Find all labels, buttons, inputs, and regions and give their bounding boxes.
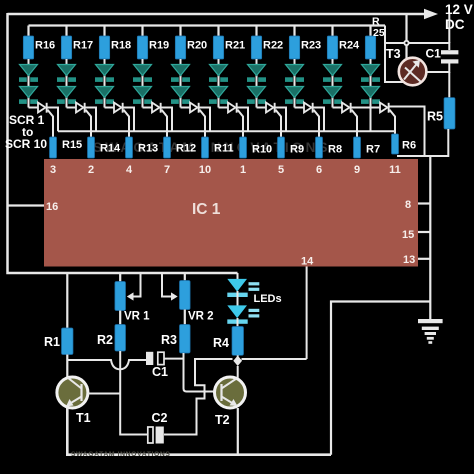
resistor R25 <box>365 36 375 59</box>
watermark bottom <box>71 451 170 458</box>
resistor R3 <box>180 325 191 354</box>
resistor R9 <box>278 137 285 158</box>
LED column 1 D2 <box>19 87 38 104</box>
label IC 1 <box>192 201 221 218</box>
wire SCR1 cathode <box>48 108 59 132</box>
svg-text:15: 15 <box>402 229 414 241</box>
wire SCR10 anode <box>371 107 381 109</box>
wire base loop left <box>385 26 404 44</box>
label R12 <box>176 143 196 155</box>
light rays D11 <box>249 282 260 291</box>
light rays D12 <box>249 309 260 318</box>
svg-text:R12: R12 <box>176 143 196 155</box>
svg-text:5: 5 <box>278 164 284 176</box>
wire ground rail <box>429 156 431 321</box>
transistor T3 <box>399 58 427 86</box>
wire dot to C1 <box>409 14 449 50</box>
svg-text:SCR 10: SCR 10 <box>5 137 47 151</box>
wire SCR2 gate <box>86 110 92 138</box>
svg-text:R16: R16 <box>35 40 55 52</box>
LED column 10 D2 <box>361 87 380 104</box>
wire SCR8 gate <box>314 110 320 138</box>
LED column 10 D1 <box>361 65 380 82</box>
wire SCR9 cathode <box>352 108 371 132</box>
resistor R17 <box>61 36 71 59</box>
svg-text:R23: R23 <box>301 40 321 52</box>
wire SCR3 cathode <box>124 108 135 132</box>
svg-text:1: 1 <box>240 164 246 176</box>
label R11 <box>214 143 234 155</box>
svg-text:C1: C1 <box>426 47 442 61</box>
wire top LED bus <box>29 24 386 26</box>
label T3 <box>386 47 401 61</box>
svg-text:7: 7 <box>164 164 170 176</box>
wire SCR1 gate <box>48 110 54 138</box>
capacitor C1 bottom <box>146 352 164 365</box>
wire SCR4 gate <box>162 110 168 138</box>
wire SCR8 anode <box>295 107 305 109</box>
resistor R20 <box>175 36 185 59</box>
resistor R14 <box>88 137 95 158</box>
wire node to R5 <box>448 72 450 98</box>
svg-text:10: 10 <box>199 164 211 176</box>
svg-text:13: 13 <box>403 254 415 266</box>
svg-text:R21: R21 <box>225 40 245 52</box>
pin 15 <box>402 229 414 241</box>
wire SCR5 gate <box>200 110 206 138</box>
label R1 <box>44 335 60 349</box>
label R15 <box>62 139 82 151</box>
resistor R24 <box>327 36 337 59</box>
label LEDs <box>254 293 282 305</box>
wire column 2 feed <box>65 26 67 38</box>
wire SCR7 gate <box>276 110 282 138</box>
pin 10 <box>199 164 211 176</box>
thyristor SCR5 <box>190 103 200 113</box>
wire VR2 feed <box>184 273 186 281</box>
12V arrowhead <box>424 9 438 20</box>
preset VR1 <box>115 282 126 311</box>
label R20 <box>187 40 207 52</box>
label R19 <box>149 40 169 52</box>
wire R5 bottom <box>397 129 448 156</box>
resistor R10 <box>240 137 247 158</box>
label R2 <box>97 333 113 347</box>
resistor R6 <box>392 134 399 154</box>
label T1 <box>76 411 91 425</box>
wire T1 collector to C1 <box>67 360 146 369</box>
svg-text:2: 2 <box>88 164 94 176</box>
wire C1 to R3 lead <box>164 358 183 360</box>
label R17 <box>73 40 93 52</box>
label R14 <box>100 143 121 155</box>
resistor R19 <box>137 36 147 59</box>
svg-text:8: 8 <box>405 199 411 211</box>
svg-text:R24: R24 <box>339 40 360 52</box>
pin 13 <box>403 254 415 266</box>
svg-text:T3: T3 <box>386 47 401 61</box>
wire diamond to pin14 <box>242 358 307 360</box>
wire column 8 feed <box>293 26 295 38</box>
LED column 6 D1 <box>209 65 228 82</box>
svg-text:LEDs: LEDs <box>254 293 282 305</box>
wire SCR8 cathode <box>314 108 325 132</box>
resistor R23 <box>289 36 299 59</box>
svg-text:R1: R1 <box>44 335 60 349</box>
capacitor C1 top plates <box>441 50 458 63</box>
label R4 <box>213 336 229 350</box>
svg-text:R13: R13 <box>138 143 158 155</box>
pin 2 <box>88 164 94 176</box>
wire SCR2 cathode <box>86 108 97 132</box>
wire diamond to T2 <box>237 366 239 378</box>
wire 12V top rail <box>8 13 426 15</box>
wire left +12V rail <box>8 13 238 273</box>
svg-text:R17: R17 <box>73 40 93 52</box>
thyristor SCR4 <box>152 103 162 113</box>
svg-text:R5: R5 <box>427 110 443 124</box>
svg-text:R14: R14 <box>100 143 121 155</box>
resistor R13 <box>126 137 133 158</box>
resistor R7 <box>354 137 361 158</box>
wire pin14 drop <box>306 267 308 360</box>
svg-text:R11: R11 <box>214 143 234 155</box>
resistor R11 <box>202 137 209 158</box>
wire SCR4 cathode <box>162 108 173 132</box>
wire pin 13 stub <box>418 258 430 260</box>
wire SCR7 anode <box>257 107 267 109</box>
wire column 7 feed <box>255 26 257 38</box>
LED column 2 D2 <box>57 87 76 104</box>
wire SCR1 anode <box>29 107 39 109</box>
wire bottom return <box>331 302 430 455</box>
label R3 <box>161 333 177 347</box>
wire C2 right riser <box>164 359 233 435</box>
label R24 <box>339 40 360 52</box>
LED column 8 D1 <box>285 65 304 82</box>
LED column 5 D1 <box>171 65 190 82</box>
resistor R21 <box>213 36 223 59</box>
wire base loop down <box>385 43 404 82</box>
wire SCR6 gate <box>238 110 244 138</box>
wire SCR3 anode <box>105 107 115 109</box>
watermark centre <box>93 140 331 155</box>
svg-text:R9: R9 <box>290 144 304 156</box>
wire LED link <box>237 291 239 306</box>
label R6 <box>402 140 416 152</box>
label C1 top <box>426 47 442 61</box>
label R22 <box>263 40 283 52</box>
wire SCR6 cathode <box>238 108 249 132</box>
wire R4 to diamond <box>237 355 239 356</box>
label T2 <box>215 413 230 427</box>
label R23 <box>301 40 321 52</box>
label R8 <box>328 144 342 156</box>
wire LED string column 4 <box>142 59 144 108</box>
wire LED-R4 link <box>237 318 239 327</box>
pin 7 <box>164 164 170 176</box>
preset VR2 <box>180 281 191 310</box>
wire VR2-R3 link <box>184 310 186 325</box>
LED column 4 D2 <box>133 87 152 104</box>
svg-text:25: 25 <box>373 27 385 39</box>
pin 3 <box>50 164 56 176</box>
resistor R4 <box>232 327 244 356</box>
resistor R16 <box>23 36 33 59</box>
wire SCR5 cathode <box>200 108 211 132</box>
label VR 2 <box>188 311 214 323</box>
wire R3 lead / T2 base <box>184 353 215 392</box>
svg-text:R6: R6 <box>402 140 416 152</box>
label 12 V DC <box>445 2 473 32</box>
label R7 <box>366 144 380 156</box>
thyristor SCR9 <box>342 103 352 113</box>
thyristor SCR6 <box>228 103 238 113</box>
label C1 bottom <box>152 365 168 379</box>
label R25 <box>372 16 385 40</box>
label R10 <box>252 144 272 156</box>
svg-text:16: 16 <box>46 201 58 213</box>
wire column 10 feed <box>369 26 371 38</box>
resistor R12 <box>164 137 171 158</box>
wire SCR4 anode <box>143 107 153 109</box>
capacitor C2 <box>148 427 164 444</box>
LED column 6 D2 <box>209 87 228 104</box>
resistor R2 <box>115 325 126 352</box>
svg-text:R2: R2 <box>97 333 113 347</box>
svg-text:R22: R22 <box>263 40 283 52</box>
svg-text:VR 1: VR 1 <box>124 311 150 323</box>
node junction above T3 <box>403 40 409 46</box>
wiper arrow VR1 <box>127 273 141 301</box>
svg-text:R3: R3 <box>161 333 177 347</box>
transistor T2 <box>215 377 246 408</box>
pin 4 <box>126 164 133 176</box>
svg-text:R19: R19 <box>149 40 169 52</box>
resistor R15 <box>50 137 57 158</box>
LED column 8 D2 <box>285 87 304 104</box>
svg-text:R4: R4 <box>213 336 229 350</box>
LED column 9 D1 <box>323 65 342 82</box>
thyristor SCR2 <box>76 103 86 113</box>
wire LED string column 3 <box>104 59 106 108</box>
svg-text:R18: R18 <box>111 40 131 52</box>
wire LED string column 5 <box>180 59 182 108</box>
wire column 5 feed <box>179 26 181 38</box>
LED D12 <box>227 305 247 323</box>
pin 9 <box>354 164 360 176</box>
pin 5 <box>278 164 284 176</box>
wire R1-T1 collector <box>66 355 68 379</box>
pin 14 <box>301 256 314 268</box>
LED column 5 D2 <box>171 87 190 104</box>
pin 1 <box>240 164 246 176</box>
wire column 4 feed <box>141 26 143 38</box>
LED column 7 D2 <box>247 87 266 104</box>
wire T1 emitter <box>67 408 331 455</box>
wire SCR10 cathode <box>389 107 424 157</box>
wire pin 8 stub <box>418 202 430 204</box>
LED column 1 D1 <box>19 65 38 82</box>
label R18 <box>111 40 131 52</box>
resistor R1 <box>62 328 74 355</box>
ground symbol <box>418 319 443 344</box>
wire SCR7 cathode <box>276 108 287 132</box>
resistor R5 <box>444 98 455 129</box>
svg-text:R10: R10 <box>252 144 272 156</box>
wire R1 feed <box>66 273 68 328</box>
pin 16 <box>46 201 58 213</box>
wire LED string column 8 <box>294 59 296 108</box>
label R5 <box>427 110 443 124</box>
resistor R18 <box>99 36 109 59</box>
wire LED string column 10 <box>370 59 372 108</box>
wire LED string column 6 <box>218 59 220 108</box>
IC U1 body <box>44 159 418 267</box>
label R13 <box>138 143 158 155</box>
wire T3 drop from 12V <box>405 14 407 59</box>
wire SCR6 anode <box>219 107 229 109</box>
svg-text:R: R <box>372 16 380 28</box>
resistor R8 <box>316 137 323 158</box>
svg-text:R15: R15 <box>62 139 82 151</box>
svg-text:DC: DC <box>445 17 465 32</box>
LED column 9 D2 <box>323 87 342 104</box>
wire SCR5 anode <box>181 107 191 109</box>
thyristor SCR1 <box>38 103 48 113</box>
LED column 4 D1 <box>133 65 152 82</box>
wire pin 15 stub <box>418 231 430 233</box>
LED D11 <box>227 279 247 297</box>
svg-text:11: 11 <box>389 164 401 176</box>
svg-text:T1: T1 <box>76 411 91 425</box>
transistor T1 <box>57 377 88 408</box>
resistor R22 <box>251 36 261 59</box>
wire SCR10 gate <box>390 110 396 138</box>
svg-text:14: 14 <box>301 256 314 268</box>
wiper arrow VR2 <box>162 273 178 301</box>
wire LED string column 7 <box>256 59 258 108</box>
svg-text:IC 1: IC 1 <box>192 201 221 218</box>
label C2 <box>152 411 168 425</box>
pin 8 <box>405 199 411 211</box>
svg-text:C1: C1 <box>152 365 168 379</box>
thyristor SCR8 <box>304 103 314 113</box>
wire SCR2 anode <box>67 107 77 109</box>
svg-text:SWAGATAM INNOVATIONS: SWAGATAM INNOVATIONS <box>71 451 170 458</box>
wire T1 base <box>88 393 120 395</box>
wire C1 to node <box>427 64 450 73</box>
LED column 3 D2 <box>95 87 114 104</box>
svg-text:R8: R8 <box>328 144 342 156</box>
wire VR1-R2 link <box>119 311 121 325</box>
LED column 7 D1 <box>247 65 266 82</box>
label R16 <box>35 40 55 52</box>
wire T2 emitter <box>237 408 239 455</box>
wire VR1 feed <box>119 273 121 282</box>
wire SCR3 gate <box>124 110 130 138</box>
LED column 2 D1 <box>57 65 76 82</box>
wire column 1 feed <box>27 26 29 38</box>
wire column 9 feed <box>331 26 333 38</box>
svg-text:VR 2: VR 2 <box>188 311 214 323</box>
label R21 <box>225 40 245 52</box>
wire column 3 feed <box>103 26 105 38</box>
pin 11 <box>389 164 401 176</box>
svg-text:4: 4 <box>126 164 133 176</box>
pin 6 <box>316 164 322 176</box>
wire column 6 feed <box>217 26 219 38</box>
svg-text:R7: R7 <box>366 144 380 156</box>
svg-text:9: 9 <box>354 164 360 176</box>
label R9 <box>290 144 304 156</box>
LED column 3 D1 <box>95 65 114 82</box>
wire LED string column 2 <box>66 59 68 108</box>
wire SCR9 gate <box>352 110 358 138</box>
wire LEDs feed <box>237 273 239 279</box>
svg-text:R20: R20 <box>187 40 207 52</box>
thyristor SCR10 <box>380 103 390 113</box>
label SCR 1 to SCR 10 <box>5 113 47 151</box>
svg-text:6: 6 <box>316 164 322 176</box>
wire SCR9 anode <box>333 107 343 109</box>
wire pin 16 stub <box>8 204 45 206</box>
wire gate bus <box>58 130 395 132</box>
svg-text:3: 3 <box>50 164 56 176</box>
wire R2 lead <box>120 351 147 435</box>
thyristor SCR7 <box>266 103 276 113</box>
thyristor SCR3 <box>114 103 124 113</box>
svg-text:C2: C2 <box>152 411 168 425</box>
wire LED string column 9 <box>332 59 334 108</box>
label VR 1 <box>124 311 150 323</box>
node T2 collector <box>233 356 242 366</box>
svg-text:T2: T2 <box>215 413 230 427</box>
wire LED string column 1 <box>28 59 30 108</box>
